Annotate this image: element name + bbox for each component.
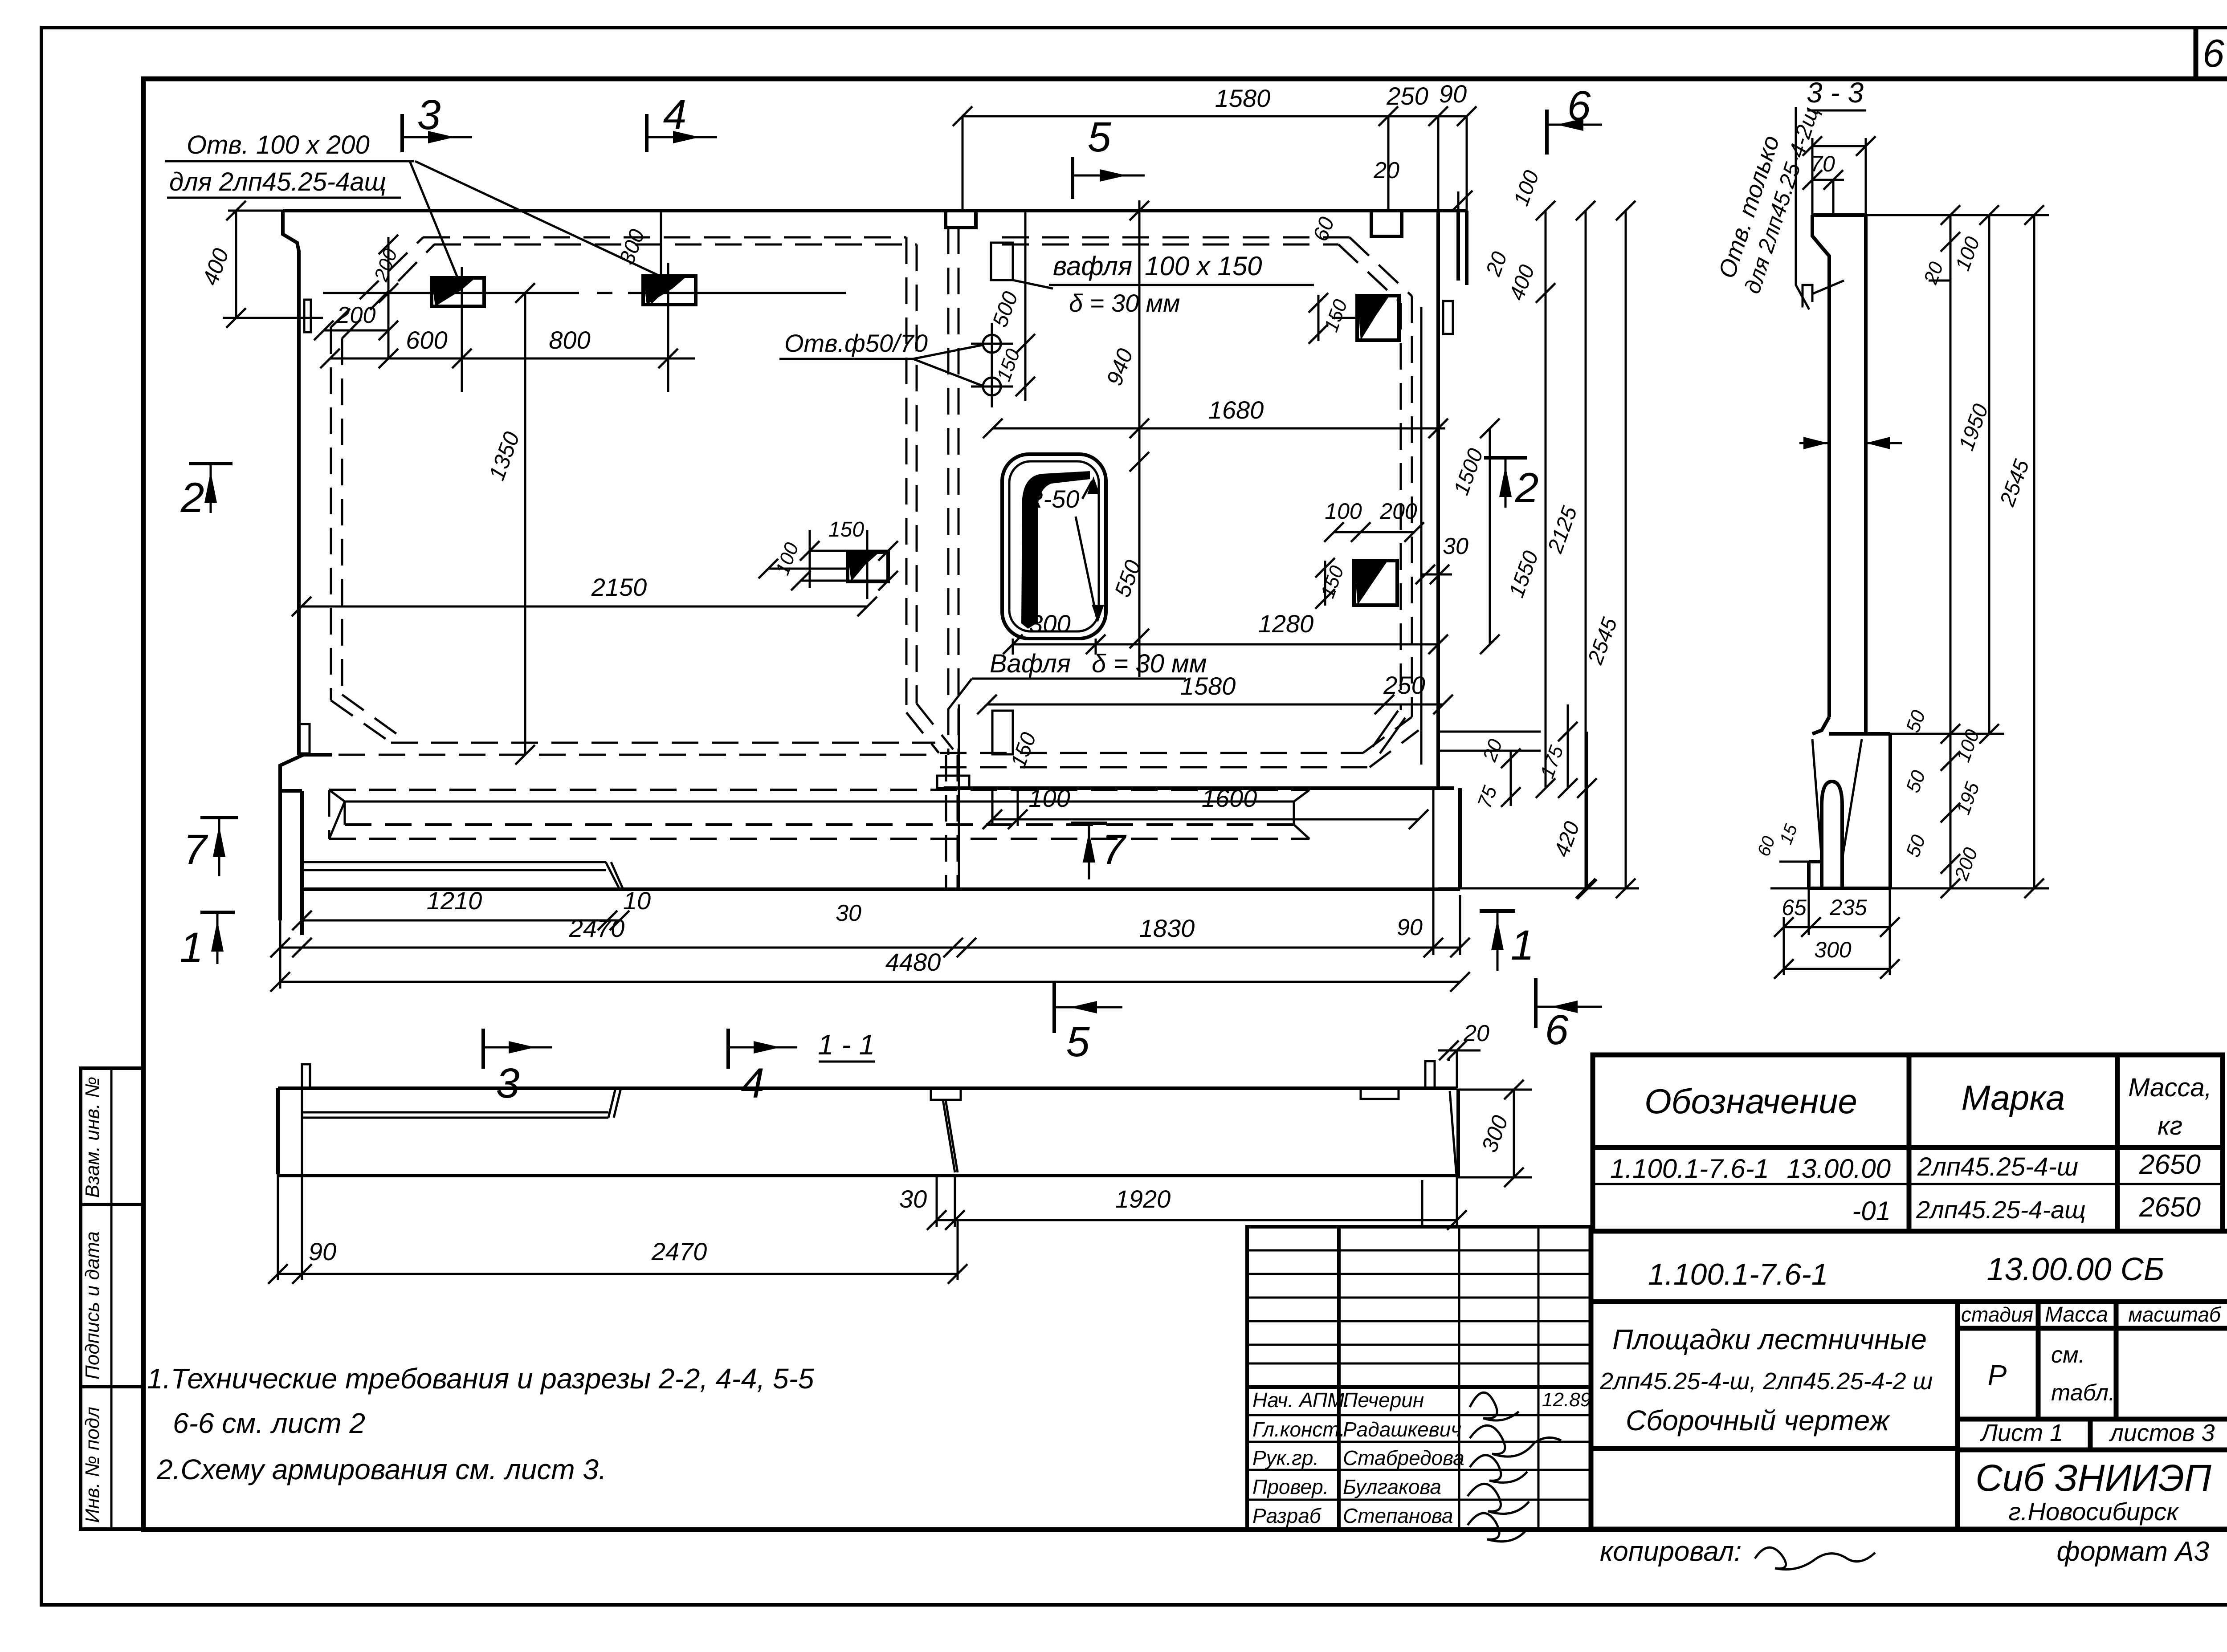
- svg-text:150: 150: [828, 518, 864, 541]
- svg-text:5: 5: [1066, 1018, 1090, 1066]
- svg-text:2470: 2470: [651, 1237, 707, 1265]
- svg-text:Отв. 100 х 200: Отв. 100 х 200: [187, 130, 370, 159]
- svg-text:2лп45.25-4-ш: 2лп45.25-4-ш: [1917, 1152, 2078, 1181]
- svg-text:67: 67: [2203, 31, 2227, 75]
- svg-text:3: 3: [417, 91, 441, 138]
- svg-text:1: 1: [1511, 922, 1534, 969]
- svg-text:Масса: Масса: [2045, 1303, 2108, 1326]
- svg-text:90: 90: [1397, 915, 1423, 940]
- svg-text:2лп45.25-4-ащ: 2лп45.25-4-ащ: [1916, 1196, 2086, 1224]
- svg-text:4480: 4480: [885, 948, 941, 976]
- svg-text:30: 30: [899, 1185, 927, 1213]
- svg-text:200: 200: [1379, 499, 1417, 524]
- svg-text:90: 90: [1439, 80, 1467, 108]
- svg-text:Сборочный чертеж: Сборочный чертеж: [1626, 1404, 1890, 1436]
- svg-text:3 - 3: 3 - 3: [1807, 77, 1864, 109]
- svg-text:Вафля: Вафля: [990, 649, 1071, 678]
- svg-text:см.: см.: [2051, 1342, 2085, 1368]
- svg-text:2.Схему армирования см. лис: 2.Схему армирования см. лист 3.: [156, 1453, 607, 1485]
- svg-text:4: 4: [663, 91, 687, 138]
- svg-text:20: 20: [1463, 1021, 1489, 1046]
- svg-text:1580: 1580: [1180, 672, 1236, 700]
- svg-text:10: 10: [623, 887, 651, 915]
- svg-text:1280: 1280: [1258, 610, 1314, 638]
- svg-text:30: 30: [836, 900, 861, 926]
- svg-text:Инв. № подл: Инв. № подл: [82, 1407, 103, 1523]
- svg-text:6: 6: [1567, 82, 1591, 130]
- svg-text:100 х 150: 100 х 150: [1145, 251, 1262, 281]
- svg-text:1580: 1580: [1215, 84, 1271, 112]
- svg-text:Степанова: Степанова: [1343, 1504, 1453, 1527]
- svg-text:7: 7: [1102, 826, 1127, 873]
- svg-text:Провер.: Провер.: [1252, 1475, 1329, 1498]
- svg-text:100: 100: [1028, 784, 1070, 812]
- svg-text:Подпись и дата: Подпись и дата: [82, 1231, 103, 1379]
- svg-text:табл.: табл.: [2051, 1380, 2115, 1406]
- svg-text:масштаб: масштаб: [2128, 1303, 2222, 1326]
- svg-text:12.89: 12.89: [1542, 1389, 1591, 1411]
- svg-text:Марка: Марка: [1962, 1078, 2065, 1117]
- svg-text:Масса,: Масса,: [2128, 1073, 2212, 1102]
- svg-text:3: 3: [496, 1060, 520, 1107]
- svg-text:формат А3: формат А3: [2057, 1536, 2209, 1567]
- svg-text:1210: 1210: [427, 887, 482, 915]
- svg-text:1.100.1-7.6-1: 1.100.1-7.6-1: [1610, 1154, 1769, 1184]
- svg-text:7: 7: [184, 826, 208, 873]
- svg-text:Лист 1: Лист 1: [1980, 1420, 2063, 1446]
- svg-text:1600: 1600: [1202, 784, 1257, 812]
- svg-text:кг: кг: [2158, 1111, 2182, 1140]
- svg-text:Р: Р: [1988, 1359, 2007, 1391]
- svg-text:2650: 2650: [2139, 1192, 2201, 1223]
- svg-text:100: 100: [1325, 499, 1362, 524]
- svg-text:Разраб: Разраб: [1252, 1504, 1322, 1527]
- svg-text:5: 5: [1088, 114, 1112, 161]
- svg-text:δ = 30 мм: δ = 30 мм: [1069, 289, 1180, 317]
- svg-text:1: 1: [180, 924, 204, 971]
- svg-text:90: 90: [309, 1237, 336, 1265]
- svg-text:копировал:: копировал:: [1600, 1536, 1742, 1567]
- svg-text:для 2лп45.25-4ащ: для 2лп45.25-4ащ: [169, 167, 386, 196]
- svg-text:Обозначение: Обозначение: [1644, 1082, 1857, 1121]
- svg-text:Нач. АПМ.: Нач. АПМ.: [1252, 1388, 1350, 1412]
- svg-text:Булгакова: Булгакова: [1343, 1475, 1441, 1498]
- svg-text:6-6 см. лист 2: 6-6 см. лист 2: [173, 1407, 365, 1439]
- svg-text:200: 200: [337, 302, 376, 328]
- svg-text:30: 30: [1443, 533, 1468, 559]
- svg-text:стадия: стадия: [1961, 1303, 2033, 1326]
- svg-text:300: 300: [1814, 937, 1852, 962]
- svg-text:1830: 1830: [1139, 914, 1195, 942]
- svg-text:2650: 2650: [2139, 1149, 2201, 1180]
- svg-text:1920: 1920: [1115, 1185, 1171, 1213]
- svg-text:600: 600: [406, 326, 447, 354]
- svg-text:1 - 1: 1 - 1: [818, 1029, 875, 1061]
- svg-text:Стабредова: Стабредова: [1343, 1446, 1464, 1469]
- svg-text:2: 2: [180, 474, 204, 521]
- svg-text:250: 250: [1383, 671, 1425, 699]
- svg-text:2150: 2150: [591, 573, 647, 601]
- svg-text:235: 235: [1829, 895, 1867, 920]
- svg-text:Площадки лестничные: Площадки лестничные: [1612, 1323, 1927, 1355]
- svg-text:Рук.гр.: Рук.гр.: [1252, 1446, 1319, 1469]
- svg-text:13.00.00 СБ: 13.00.00 СБ: [1986, 1252, 2164, 1287]
- svg-text:2: 2: [1515, 464, 1539, 512]
- svg-text:800: 800: [549, 326, 590, 354]
- svg-text:Сиб ЗНИИЭП: Сиб ЗНИИЭП: [1975, 1457, 2211, 1499]
- svg-text:4: 4: [741, 1060, 765, 1107]
- svg-text:20: 20: [1373, 158, 1399, 183]
- svg-text:250: 250: [1386, 82, 1428, 110]
- svg-text:-01: -01: [1852, 1196, 1891, 1226]
- svg-text:г.Новосибирск: г.Новосибирск: [2008, 1497, 2179, 1526]
- svg-text:Печерин: Печерин: [1343, 1388, 1424, 1412]
- svg-text:вафля: вафля: [1053, 251, 1132, 281]
- svg-text:R-50: R-50: [1025, 485, 1079, 513]
- svg-text:Гл.конст.: Гл.конст.: [1252, 1418, 1345, 1441]
- svg-text:13.00.00: 13.00.00: [1786, 1154, 1891, 1184]
- svg-text:1.Технические требования и: 1.Технические требования и разрезы 2-2, …: [147, 1363, 814, 1395]
- svg-text:2470: 2470: [569, 914, 625, 942]
- svg-text:1.100.1-7.6-1: 1.100.1-7.6-1: [1648, 1257, 1828, 1291]
- svg-text:300: 300: [1029, 610, 1070, 638]
- svg-text:6: 6: [1545, 1006, 1569, 1054]
- svg-text:листов 3: листов 3: [2109, 1420, 2215, 1446]
- svg-text:Взам. инв. №: Взам. инв. №: [82, 1077, 103, 1198]
- svg-text:Радашкевич: Радашкевич: [1343, 1418, 1461, 1441]
- svg-text:Отв.ф50/70: Отв.ф50/70: [784, 329, 928, 357]
- svg-text:1680: 1680: [1208, 396, 1264, 424]
- svg-text:70: 70: [1810, 151, 1835, 176]
- svg-text:2лп45.25-4-ш, 2лп45.25-4-2 ш: 2лп45.25-4-ш, 2лп45.25-4-2 ш: [1599, 1368, 1933, 1395]
- svg-text:65: 65: [1782, 895, 1807, 920]
